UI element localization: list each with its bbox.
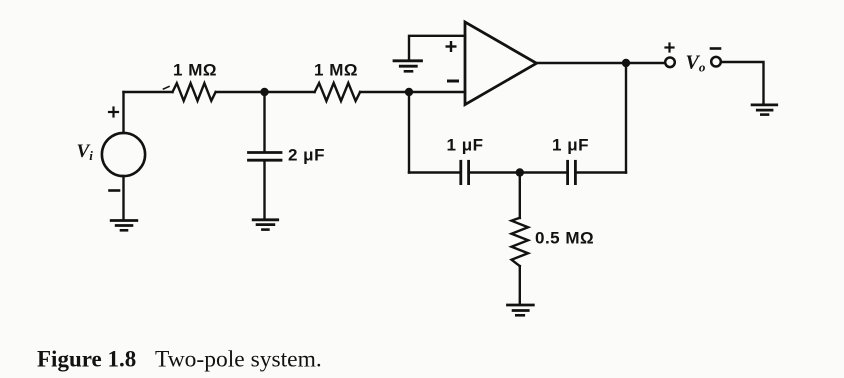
wire R2 to op-amp minus input bbox=[360, 91, 465, 93]
scan artifact dash left of R1 bbox=[164, 87, 170, 90]
wire between R1 and node A bbox=[216, 91, 315, 93]
wire C1 to ground bbox=[263, 160, 265, 219]
wire Vi bottom vertical bbox=[122, 176, 124, 220]
ground below Vi bbox=[111, 221, 137, 231]
svg-text:Two-pole system.: Two-pole system. bbox=[155, 347, 322, 373]
terminal circle Vo minus bbox=[711, 57, 721, 67]
svg-text:1 MΩ: 1 MΩ bbox=[173, 61, 217, 80]
node B junction dot bbox=[516, 168, 524, 176]
wire feedback rail right segment bbox=[575, 171, 626, 173]
svg-text:1 μF: 1 μF bbox=[552, 136, 589, 155]
wire node A down to C1 bbox=[263, 92, 265, 152]
op-amp U1 triangle bbox=[465, 22, 537, 105]
wire Vo minus terminal to right ground bbox=[721, 62, 764, 105]
plus sign at op-amp input bbox=[447, 42, 456, 51]
wire op-amp output bbox=[537, 62, 666, 64]
svg-text:1 μF: 1 μF bbox=[447, 136, 484, 155]
source Vi circle bbox=[102, 133, 145, 176]
wire output node down to feedback rail bbox=[625, 63, 627, 173]
ground at op-amp plus input bbox=[394, 61, 422, 72]
svg-text:1 MΩ: 1 MΩ bbox=[314, 61, 358, 80]
terminal circle Vo plus bbox=[665, 58, 675, 68]
node A junction dot bbox=[260, 88, 268, 96]
resistor R3 0.5 Mohm vertical zigzag bbox=[511, 218, 528, 266]
wire op-amp plus input bbox=[409, 36, 465, 60]
ground at output right bbox=[752, 105, 777, 115]
wire between C2 and node B bbox=[469, 171, 520, 173]
wire feedback left vertical bbox=[408, 92, 410, 173]
wire Vi top vertical bbox=[122, 92, 124, 133]
capacitor C2 1 uF plates bbox=[461, 161, 469, 183]
capacitor C3 1 uF plates bbox=[568, 161, 576, 183]
resistor R1 1 Mohm zigzag bbox=[173, 83, 216, 101]
minus sign at Vi bbox=[110, 189, 120, 192]
node minus-input junction dot bbox=[405, 88, 413, 96]
svg-text:Figure 1.8: Figure 1.8 bbox=[37, 347, 136, 372]
wire input top-left horizontal bbox=[124, 91, 173, 93]
resistor R2 1 Mohm zigzag bbox=[315, 83, 360, 101]
minus sign at op-amp input bbox=[449, 80, 458, 83]
minus sign at Vo bbox=[711, 47, 720, 50]
ground below R3 bbox=[508, 305, 534, 315]
wire between node B and C3 bbox=[520, 171, 568, 173]
node output junction dot bbox=[622, 59, 630, 67]
ground below C1 bbox=[253, 220, 278, 230]
plus sign at Vi bbox=[109, 108, 118, 117]
wire R3 to ground bbox=[519, 266, 521, 304]
plus sign at Vo bbox=[666, 44, 674, 52]
wire feedback rail left segment bbox=[409, 171, 461, 173]
wire node B down to R3 bbox=[519, 173, 521, 219]
svg-text:0.5 MΩ: 0.5 MΩ bbox=[535, 229, 594, 248]
capacitor C1 2 uF plates bbox=[249, 153, 282, 161]
svg-text:2 μF: 2 μF bbox=[288, 146, 325, 165]
